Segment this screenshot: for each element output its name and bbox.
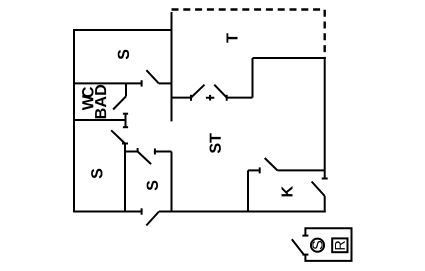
wall K left [247, 170, 249, 211]
legend door leaf [292, 239, 304, 254]
jamb tick stub serif [123, 126, 128, 128]
plus symbol double door [206, 95, 214, 101]
wall K top east [277, 169, 324, 171]
wall y97 west of double door [172, 97, 192, 99]
label T terrace [227, 33, 238, 42]
legend circle S symbol [311, 239, 324, 252]
wall y83 east [159, 82, 172, 84]
jamb tick [141, 208, 143, 214]
label WC [82, 87, 93, 110]
wall y120 below WC [74, 119, 125, 121]
jamb tick [141, 80, 143, 86]
wall left outer [73, 29, 75, 213]
wall step vertical [252, 58, 254, 98]
wall small S top east [155, 151, 172, 153]
label ST [210, 133, 221, 153]
wall small S top west [125, 151, 138, 153]
wall right lower [324, 196, 326, 213]
jamb tick [154, 149, 156, 155]
wall bottom east [159, 211, 326, 213]
legend box outline [305, 228, 351, 261]
door leaf K [265, 158, 278, 170]
label legend S [312, 241, 322, 249]
jamb tick [122, 143, 128, 145]
label K [282, 186, 293, 196]
jamb tick [137, 148, 139, 152]
terrace dashed outline [172, 10, 325, 58]
door leaf double right [214, 85, 226, 98]
jamb tick [322, 178, 328, 180]
label S room S2 [91, 169, 102, 179]
jamb tick [190, 95, 192, 101]
wall right upper [324, 58, 326, 179]
jamb tick stub serif [123, 113, 128, 115]
label S room S3 [147, 181, 158, 191]
wall top-right [253, 57, 326, 59]
door leaf room S3 [138, 152, 152, 165]
door leaf WC [113, 96, 126, 109]
wall y83 west [74, 82, 142, 84]
jamb tick [259, 167, 261, 173]
wall x125 south [124, 144, 126, 212]
wall K top west [248, 169, 260, 171]
label BAD [95, 85, 106, 118]
jamb tick [226, 95, 228, 101]
door leaf double left [191, 85, 205, 98]
legend stub tick [302, 235, 308, 237]
wall y97 east of double door [227, 97, 253, 99]
legend stub tick [302, 254, 308, 256]
wall stub x125 [125, 114, 127, 128]
wall bottom west [73, 211, 142, 213]
door leaf room S2 [111, 130, 125, 143]
label S room S1 [118, 50, 129, 60]
legend square R symbol [332, 238, 347, 252]
wall small S right [171, 152, 173, 212]
wall WC right [125, 83, 127, 96]
door leaf room S1 [146, 70, 158, 83]
wall top of room S1 [74, 29, 172, 31]
wall x171 vertical [171, 12, 173, 121]
door leaf right wall [312, 182, 325, 197]
door leaf bottom entrance [146, 212, 159, 226]
label legend R [335, 241, 345, 249]
